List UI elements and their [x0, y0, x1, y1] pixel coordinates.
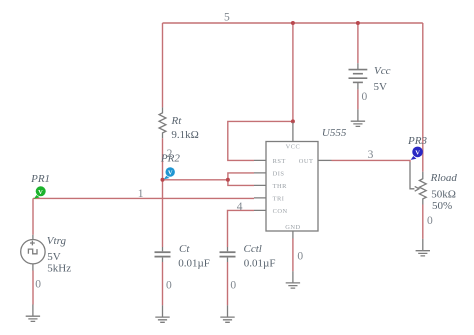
svg-text:GND: GND — [285, 224, 300, 231]
svg-text:VCC: VCC — [286, 144, 301, 151]
junction dot net2 at Rt bottom — [161, 178, 165, 182]
wire net 5 left vertical to Rt top — [162, 23, 164, 107]
svg-text:0: 0 — [230, 279, 236, 291]
svg-text:5V: 5V — [374, 81, 388, 93]
wire net 2 junction to DIS/THR branch — [163, 179, 228, 181]
wire Vtrg bottom to ground — [32, 271, 34, 305]
svg-text:5kHz: 5kHz — [47, 263, 71, 275]
ground under battery — [351, 109, 365, 126]
svg-text:TRI: TRI — [273, 196, 285, 203]
wire net 5 top horizontal — [163, 22, 423, 24]
svg-text:Vcc: Vcc — [374, 65, 391, 77]
svg-text:RST: RST — [273, 158, 286, 165]
capacitor Cctl — [220, 247, 236, 262]
wire Rload bottom to ground — [422, 205, 424, 239]
wire net 2 junction down to Ct — [162, 180, 164, 247]
source Vtrg circle — [21, 235, 45, 271]
svg-text:PR3: PR3 — [407, 135, 427, 147]
wire net 2 branch up to DIS — [228, 173, 254, 180]
svg-text:U555: U555 — [322, 127, 347, 139]
svg-text:2: 2 — [167, 148, 173, 160]
junction dot net2 DIS/THR branch — [226, 178, 230, 182]
svg-text:V: V — [168, 170, 173, 177]
potentiometer Rload wiper arm — [410, 162, 419, 191]
junction dot VCC/RST node — [291, 119, 295, 123]
svg-text:0: 0 — [362, 91, 368, 103]
svg-text:Rload: Rload — [430, 172, 458, 184]
probe PR2 — [164, 167, 175, 179]
svg-text:0: 0 — [427, 215, 433, 227]
svg-text:Cctl: Cctl — [244, 243, 262, 255]
svg-text:0.01µF: 0.01µF — [244, 258, 276, 270]
svg-text:V: V — [38, 189, 43, 196]
svg-text:5: 5 — [224, 12, 230, 24]
wire Cctl bottom to ground — [227, 262, 229, 305]
svg-text:THR: THR — [273, 183, 288, 190]
svg-text:0: 0 — [297, 251, 303, 263]
battery Vcc — [349, 63, 368, 89]
wire net 3 OUT to Rload wiper — [332, 160, 411, 162]
potentiometer Rload body — [419, 172, 426, 205]
svg-text:0: 0 — [35, 279, 41, 291]
svg-text:OUT: OUT — [299, 158, 314, 165]
svg-text:50%: 50% — [432, 200, 452, 212]
svg-text:Ct: Ct — [179, 243, 190, 255]
svg-text:CON: CON — [273, 208, 288, 215]
svg-text:4: 4 — [237, 201, 243, 213]
ground under Vtrg — [26, 305, 40, 322]
svg-text:3: 3 — [368, 149, 374, 161]
wire net 1 vertical to Vtrg — [32, 198, 34, 234]
junction dot at top wire x=293 — [291, 21, 295, 25]
probe PR3 — [411, 147, 423, 160]
wire net 2 branch down to THR — [228, 180, 254, 186]
ground under IC — [286, 271, 300, 288]
wire net 5 battery top drop — [357, 23, 359, 63]
wire IC GND to ground — [292, 239, 294, 272]
ground under Cctl — [220, 305, 234, 322]
resistor Rt — [159, 107, 166, 138]
svg-text:PR1: PR1 — [30, 173, 50, 185]
capacitor Ct — [155, 247, 171, 262]
probe PR1 — [34, 186, 46, 199]
svg-text:50kΩ: 50kΩ — [431, 189, 456, 201]
wire net 5 right vertical to Rload top — [422, 23, 424, 172]
svg-text:Vtrg: Vtrg — [47, 235, 67, 247]
wire battery bottom to ground — [357, 89, 359, 109]
wire Ct bottom to ground — [162, 262, 164, 305]
wire net 5 VCC pin drop — [292, 23, 294, 121]
wire net 4 CON to Cctl — [228, 210, 255, 247]
svg-text:5V: 5V — [47, 251, 61, 263]
wire net 5 RST loop — [228, 121, 293, 160]
ground under Ct — [155, 305, 169, 322]
IC U555 555-timer box and pin stubs — [254, 123, 332, 239]
ground under Rload — [416, 239, 430, 256]
wire net 2 Rt bottom to junction — [162, 138, 164, 180]
svg-text:V: V — [415, 150, 420, 157]
svg-text:0.01µF: 0.01µF — [178, 258, 210, 270]
svg-text:Rt: Rt — [171, 115, 183, 127]
svg-text:9.1kΩ: 9.1kΩ — [171, 129, 198, 141]
junction dot at top wire x=358 — [356, 21, 360, 25]
svg-text:DIS: DIS — [273, 171, 285, 178]
wire net 1 Vtrg to TRI — [33, 197, 254, 199]
svg-text:0: 0 — [166, 279, 172, 291]
svg-text:1: 1 — [138, 188, 144, 200]
